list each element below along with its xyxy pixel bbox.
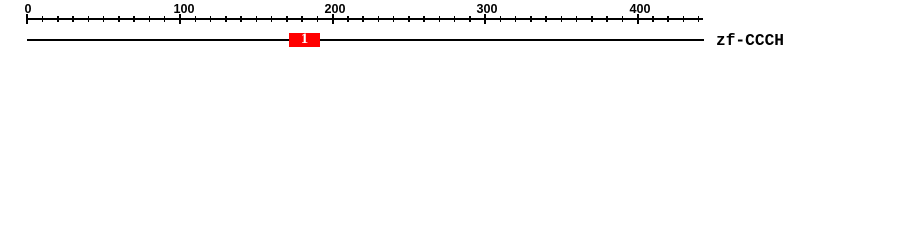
label 100 — [174, 3, 195, 16]
major tick 200 — [332, 14, 334, 24]
minor ticks group — [42, 16, 44, 22]
major tick 0 — [26, 14, 28, 24]
label 300 — [477, 3, 498, 16]
label zf-CCCH — [716, 35, 784, 48]
sequence line — [27, 39, 704, 41]
label 0 — [24, 3, 31, 16]
label 400 — [629, 3, 650, 16]
domain box 1 (zf-CCCH) — [289, 33, 320, 47]
label 200 — [325, 3, 346, 16]
major tick 100 — [179, 14, 181, 24]
major tick 300 — [484, 14, 486, 24]
ruler axis line — [27, 18, 703, 20]
major tick 400 — [637, 14, 639, 24]
